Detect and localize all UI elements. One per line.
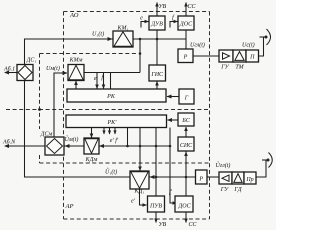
svg-text:Г: Г — [184, 96, 189, 102]
svg-text:Ůгл(t): Ůгл(t) — [216, 161, 231, 169]
svg-text:ДС₁: ДС₁ — [26, 58, 37, 64]
svg-text:ГУ: ГУ — [220, 65, 229, 71]
svg-text:Аб.1: Аб.1 — [3, 66, 15, 73]
svg-text:U₁(t): U₁(t) — [92, 31, 104, 38]
svg-text:СС: СС — [188, 4, 197, 10]
svg-text:ДОС: ДОС — [177, 204, 191, 210]
svg-text:Uгл(t): Uгл(t) — [190, 42, 205, 49]
svg-text:КМ₁: КМ₁ — [116, 26, 128, 32]
svg-text:е: е — [140, 16, 143, 22]
svg-text:АР: АР — [65, 203, 74, 210]
svg-text:БС: БС — [181, 118, 191, 124]
svg-text:РК′: РК′ — [107, 120, 118, 126]
svg-text:Р: Р — [198, 177, 203, 183]
svg-text:е: е — [94, 76, 97, 82]
svg-text:П: П — [249, 55, 255, 61]
svg-text:Uс(t): Uс(t) — [242, 42, 255, 49]
svg-text:ГД: ГД — [233, 187, 242, 193]
svg-text:Р: Р — [183, 55, 188, 61]
svg-text:Пр: Пр — [245, 177, 253, 183]
svg-text:Uм(t): Uм(t) — [46, 65, 60, 72]
svg-text:УВ: УВ — [159, 222, 167, 228]
svg-text:Аб.N: Аб.N — [2, 139, 16, 146]
svg-text:УВ: УВ — [159, 4, 167, 10]
svg-text:РК: РК — [106, 94, 116, 100]
svg-text:ТМ: ТМ — [235, 65, 244, 71]
svg-text:е′: е′ — [131, 199, 136, 205]
svg-text:КД₁: КД₁ — [134, 189, 145, 195]
svg-text:ГУ: ГУ — [220, 187, 229, 193]
svg-text:Ů₁(t): Ů₁(t) — [105, 168, 117, 176]
svg-text:ДСм: ДСм — [40, 132, 53, 138]
svg-text:КДм: КДм — [85, 157, 98, 163]
svg-text:ДУВ: ДУВ — [150, 22, 163, 28]
svg-text:е′ f′: е′ f′ — [110, 137, 119, 144]
svg-text:СС: СС — [189, 222, 198, 228]
svg-text:КМм: КМм — [69, 58, 83, 64]
svg-text:СИС: СИС — [180, 143, 193, 149]
svg-text:Ůм(t): Ůм(t) — [65, 135, 79, 143]
svg-text:ГИС: ГИС — [150, 72, 164, 78]
svg-text:ДОС: ДОС — [179, 22, 193, 28]
svg-text:ПУВ: ПУВ — [149, 204, 162, 210]
svg-text:АО: АО — [69, 12, 79, 19]
